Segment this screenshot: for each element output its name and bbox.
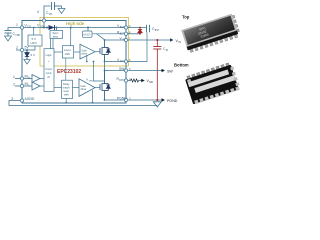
svg-text:BST: BST (120, 27, 125, 29)
wire AGND external (9, 101, 157, 106)
pin 1 VDD (20, 26, 23, 29)
wire VIN external (128, 39, 171, 41)
node rail to UVLO (87, 27, 89, 29)
wire PGND external (128, 99, 162, 101)
body diode low side (105, 84, 111, 91)
pin INH (20, 77, 23, 80)
zener 5V (26, 49, 28, 51)
pin SW (124, 69, 127, 72)
svg-text:2: 2 (16, 46, 18, 50)
side pins right edge (231, 15, 239, 32)
svg-text:1: 1 (13, 75, 15, 79)
svg-text:SW: SW (119, 67, 125, 71)
svg-text:PGND: PGND (167, 99, 178, 103)
pin RDRV (124, 79, 127, 82)
wire pin4 into rail (43, 22, 45, 27)
level shift block (62, 46, 73, 58)
wire SW (105, 70, 127, 72)
wire VDD rail (22, 27, 126, 29)
pin RBST (124, 32, 127, 35)
svg-text:IN: IN (166, 50, 169, 52)
svg-text:driver: driver (82, 52, 88, 55)
svg-text:EPC23102: EPC23102 (57, 69, 81, 75)
package top face (181, 14, 237, 47)
large pads (188, 68, 236, 94)
wires sync boot to logic block (52, 39, 54, 49)
pin INL (20, 84, 23, 87)
svg-text:5 V: 5 V (31, 53, 36, 57)
wire delay-match block to AGND (65, 99, 67, 104)
svg-text:Bottom: Bottom (174, 63, 189, 68)
transistor low-side GaN FET (100, 71, 105, 101)
capacitor CVDD (5, 31, 12, 37)
capacitor CVB (52, 2, 62, 10)
logic / cross conduction block (44, 49, 54, 92)
wire drain to VIN pin (105, 39, 127, 41)
buffer INH (32, 75, 40, 83)
svg-text:VB: VB (49, 14, 53, 16)
wire rail to level shift supply (70, 28, 72, 46)
svg-text:DD: DD (28, 26, 32, 29)
perimeter pads bottom (187, 65, 241, 104)
svg-text:Level: Level (64, 48, 71, 52)
wire VBST external (128, 27, 147, 29)
pin 4 top (bootstrap cap) (42, 19, 45, 22)
wire RBST external (128, 33, 140, 35)
svg-text:VDD: VDD (15, 35, 20, 37)
wire driver to gate (95, 51, 100, 53)
pin PGND (124, 98, 127, 101)
chip package bottom view (184, 62, 240, 105)
ground (zener) (24, 60, 30, 65)
svg-text:UVLO: UVLO (83, 33, 90, 37)
chip package top view (181, 13, 241, 53)
wire driver to low gate (95, 87, 100, 89)
wire SW external (128, 70, 162, 72)
ground (CVDD) (5, 36, 12, 41)
resistor RDRV external (128, 80, 131, 82)
LDO block (28, 35, 42, 46)
body diode high side (105, 48, 111, 55)
svg-text:DRV: DRV (119, 80, 124, 82)
svg-text:High side: High side (66, 21, 85, 26)
pin VSW (124, 60, 127, 63)
svg-text:cond: cond (46, 72, 52, 75)
side pins bottom edge (190, 34, 238, 52)
yellow high-side boundary box (40, 18, 129, 67)
pins protruding top edge (187, 63, 230, 80)
wire diagonal UVLO branch to drain (97, 34, 105, 40)
delay match block (62, 80, 73, 98)
IC block outline (22, 21, 126, 104)
wire source chain to SW (104, 57, 106, 84)
wire level shift down to delay block (65, 58, 67, 80)
body (185, 65, 239, 105)
wire low FET source to PGND (105, 99, 127, 101)
svg-text:driver: driver (81, 88, 87, 91)
wire UVLO to RBST pin (92, 33, 126, 35)
svg-text:DD: DD (150, 81, 154, 84)
svg-text:1: 1 (16, 23, 18, 27)
buffer INL (32, 82, 40, 90)
svg-text:Logic: Logic (46, 54, 53, 57)
svg-text:IN: IN (179, 41, 182, 44)
svg-text:PGND: PGND (117, 96, 127, 100)
capacitor CBST (147, 25, 150, 33)
pin VIN (124, 38, 127, 41)
bootstrap diode (46, 25, 58, 30)
wire top cap (44, 6, 51, 19)
svg-text:BST: BST (120, 33, 125, 35)
wire level shift to driver (74, 51, 80, 53)
UVLO block (83, 31, 93, 37)
pin VBST (124, 26, 127, 29)
svg-text:DRV: DRV (89, 81, 94, 83)
op-amp low side gate driver (79, 79, 95, 97)
svg-text:4: 4 (37, 10, 39, 14)
sync boot block (50, 28, 63, 39)
wire driver return to VSW (86, 55, 88, 62)
wire VSW to low gate driver supply (94, 62, 105, 82)
svg-text:2: 2 (13, 83, 15, 87)
wire logic to level shift (54, 51, 62, 53)
wire VSW (105, 61, 127, 63)
wire VSW to CBST bottom (128, 32, 147, 61)
ground (PGND) (153, 102, 161, 107)
ground (CVB) (61, 6, 63, 8)
svg-text:Top: Top (182, 15, 190, 20)
svg-text:Cross: Cross (45, 68, 52, 71)
pin AGND (20, 99, 23, 102)
svg-text:shift: shift (64, 94, 69, 97)
pin 2 input 5V (20, 48, 23, 51)
op-amp high side gate driver (80, 44, 95, 59)
svg-text:boot: boot (53, 34, 58, 38)
svg-text:ctl: ctl (47, 76, 50, 79)
wire driver to AGND (92, 90, 94, 103)
wire VIN vertical (red) (156, 40, 158, 47)
svg-text:IN: IN (122, 40, 125, 42)
svg-text:AGND: AGND (25, 97, 35, 101)
diode bootstrap external (red) (138, 27, 142, 35)
transistor high-side GaN FET (100, 40, 105, 62)
svg-text:shift: shift (65, 52, 70, 56)
package side (thickness) (186, 29, 238, 50)
wire logic to delay match (54, 87, 62, 89)
capacitor CIN (153, 47, 161, 50)
svg-text:SW: SW (167, 70, 173, 74)
wire to CVDD (8, 28, 20, 31)
svg-text:BST: BST (155, 30, 160, 32)
svg-text:LDO: LDO (31, 41, 38, 45)
